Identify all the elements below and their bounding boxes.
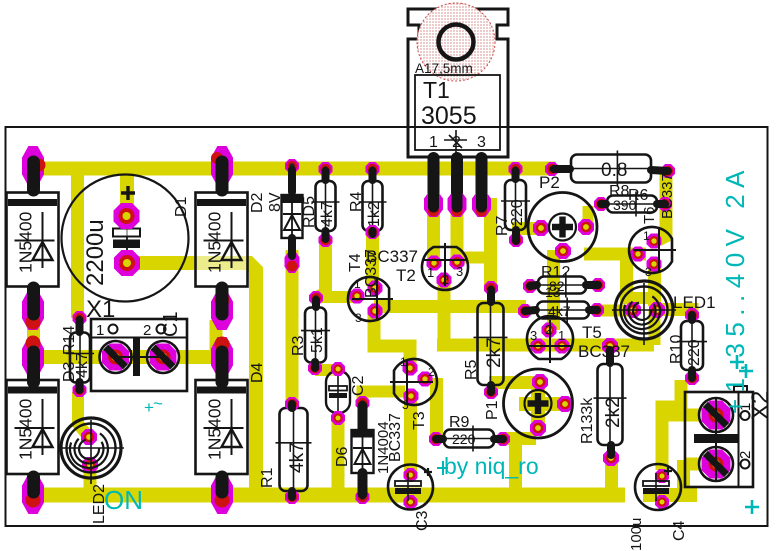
wire T4 collector to R11 bbox=[374, 300, 526, 313]
pads P2 bbox=[533, 220, 549, 236]
pads R5 bbox=[484, 281, 498, 295]
svg-text:1N5400: 1N5400 bbox=[205, 398, 225, 460]
resistor R5 body bbox=[478, 303, 504, 385]
wire T1 leg1 to T2 bbox=[427, 210, 440, 260]
svg-text:X2: X2 bbox=[747, 391, 774, 420]
pads C3 bbox=[404, 468, 418, 482]
resistor R12 body bbox=[538, 277, 586, 294]
wire R10 to C4 bbox=[662, 380, 681, 470]
X1 screw 1 bbox=[100, 341, 132, 373]
wire LED2 to bottom rail bbox=[84, 465, 97, 496]
svg-text:T6: T6 bbox=[641, 206, 658, 224]
svg-text:R133k: R133k bbox=[579, 397, 596, 444]
wire P1 wiper horizontal bbox=[519, 397, 563, 411]
svg-text:2: 2 bbox=[545, 322, 552, 337]
svg-text:13: 13 bbox=[545, 284, 561, 300]
pads D6 bbox=[356, 396, 370, 410]
wire T1 leg3 to R5 bbox=[481, 205, 491, 289]
transistor T3 BC337 bbox=[394, 359, 437, 405]
svg-text:2: 2 bbox=[442, 272, 449, 287]
svg-text:C3: C3 bbox=[414, 510, 431, 531]
svg-text:220: 220 bbox=[686, 339, 703, 366]
svg-text:1N5400: 1N5400 bbox=[16, 211, 36, 273]
svg-text:X1: X1 bbox=[86, 296, 115, 323]
pads T1 legs bbox=[424, 191, 443, 217]
diode D3 1N5400 body bbox=[7, 380, 59, 474]
wire top rail from D1 to R8 bbox=[27, 162, 556, 176]
wire T3 to R9 bbox=[430, 378, 443, 438]
wire R5 to P1 top bbox=[489, 376, 541, 389]
T1 mounting hole circle bbox=[417, 3, 495, 81]
svg-text:T3: T3 bbox=[411, 411, 428, 430]
capacitor C1 polarity symbol bbox=[126, 226, 128, 253]
pads zener DZ bbox=[285, 159, 299, 173]
wire LED1 stub bbox=[649, 309, 661, 345]
svg-text:1N5400: 1N5400 bbox=[16, 398, 36, 460]
diode D1 1N5400 body bbox=[7, 193, 59, 287]
terminal block X2 bbox=[685, 392, 753, 487]
svg-text:by niq_ro: by niq_ro bbox=[444, 453, 539, 479]
potentiometer P2 bbox=[528, 193, 597, 262]
pad D4 top bbox=[211, 337, 233, 377]
svg-text:1k2: 1k2 bbox=[366, 201, 383, 227]
capacitor C1 plus mark bbox=[121, 186, 135, 200]
wire mid rail T2-T5-R13 bbox=[437, 339, 654, 352]
resistor R14 body bbox=[70, 333, 90, 383]
svg-text:BC337: BC337 bbox=[387, 413, 404, 462]
pads R11 bbox=[518, 304, 532, 318]
wire R13 to rail bbox=[605, 458, 618, 492]
wire P2 wiper down to T5 bbox=[547, 250, 560, 330]
pad D1 bottom bbox=[22, 290, 44, 330]
pads R14 bbox=[73, 311, 87, 325]
pads T2 bbox=[427, 256, 442, 271]
svg-text:R12: R12 bbox=[541, 264, 570, 281]
pads T4 bbox=[350, 289, 365, 304]
pads R3 bbox=[309, 291, 323, 305]
pad C1 plus bbox=[114, 203, 140, 229]
resistor R11 body bbox=[537, 302, 589, 319]
pads R12 bbox=[523, 279, 537, 293]
pads C4 bbox=[655, 469, 669, 483]
pads RD5 bbox=[319, 162, 333, 176]
wire P2 to R6 bbox=[583, 206, 594, 228]
svg-text:BC337: BC337 bbox=[363, 249, 380, 298]
pads LED2 bbox=[81, 429, 97, 445]
svg-text:1: 1 bbox=[643, 229, 650, 243]
svg-text:C2: C2 bbox=[350, 375, 367, 396]
wire T1 leg2 to T2 bbox=[451, 210, 464, 259]
transistor T1 3055 package bbox=[408, 9, 508, 157]
resistor R6 body bbox=[607, 196, 657, 213]
pads R9 bbox=[429, 432, 443, 446]
pads R7 bbox=[509, 162, 523, 176]
svg-text:1: 1 bbox=[96, 322, 104, 339]
svg-text:3: 3 bbox=[645, 265, 652, 279]
svg-text:1: 1 bbox=[427, 265, 434, 280]
wire LED1 to R10 bbox=[651, 310, 692, 319]
svg-text:C1: C1 bbox=[160, 311, 182, 337]
pads R6 bbox=[594, 197, 608, 211]
svg-text:1: 1 bbox=[400, 355, 407, 369]
wire C2 to rail bbox=[332, 420, 345, 492]
resistor R1 body bbox=[280, 408, 308, 491]
wire X1 feed bbox=[33, 350, 216, 364]
svg-text:3055: 3055 bbox=[421, 102, 477, 130]
svg-text:1: 1 bbox=[354, 277, 361, 291]
pads R1 bbox=[285, 397, 299, 411]
svg-text:R5: R5 bbox=[463, 359, 480, 380]
pads C2 bbox=[331, 362, 345, 376]
cyan plus marks right bbox=[730, 355, 753, 378]
resistor R9 body bbox=[444, 430, 494, 448]
T1 inner rect bbox=[415, 75, 500, 150]
pad D3 top bbox=[22, 337, 44, 377]
svg-text:3: 3 bbox=[402, 398, 409, 412]
svg-text:3: 3 bbox=[530, 328, 537, 343]
svg-text:2k2: 2k2 bbox=[603, 397, 624, 428]
wire zener to R1 bbox=[286, 250, 299, 404]
svg-text:4k7: 4k7 bbox=[319, 201, 336, 227]
svg-text:D4: D4 bbox=[249, 362, 266, 383]
resistor R10 body bbox=[681, 321, 703, 370]
wire X2 pin2 rail segment bbox=[643, 488, 697, 502]
wire T4 emitter to T3 bbox=[374, 313, 410, 364]
pads R8 bbox=[545, 162, 559, 176]
X2 screw 1 bbox=[699, 398, 733, 432]
wire T2 pin2 down bbox=[438, 282, 451, 345]
terminal block X1 bbox=[91, 319, 187, 391]
wire T6 branch down bbox=[620, 250, 633, 298]
pads R10 bbox=[685, 308, 699, 322]
wire bottom ground rail bbox=[22, 488, 625, 503]
wire left column D1-D3 link bbox=[27, 298, 40, 354]
svg-text:1: 1 bbox=[558, 328, 565, 343]
svg-text:5k1: 5k1 bbox=[309, 327, 326, 353]
svg-text:2k7: 2k7 bbox=[484, 337, 505, 368]
wire X1 to D2 column bbox=[210, 320, 223, 359]
svg-text:BC337: BC337 bbox=[659, 173, 676, 219]
transistor T6 BC337 bbox=[629, 227, 672, 273]
pads LED1 bbox=[625, 302, 641, 318]
wire R3 to C2 bbox=[315, 364, 338, 376]
resistor R13 body bbox=[598, 364, 623, 445]
pad D1 top bbox=[22, 146, 44, 186]
svg-text:1N5400: 1N5400 bbox=[205, 211, 225, 273]
svg-text:D1: D1 bbox=[173, 196, 190, 217]
svg-text:2: 2 bbox=[737, 451, 754, 459]
wire RD5 to R3 bbox=[318, 237, 326, 297]
wire C1 minus to right column bbox=[121, 263, 256, 495]
pad D2 top bbox=[211, 146, 233, 186]
svg-text:T2: T2 bbox=[396, 266, 416, 285]
transistor T2 BC337 bbox=[422, 247, 468, 290]
wire R3 to T4 base bbox=[313, 291, 355, 303]
svg-text:0.8: 0.8 bbox=[601, 160, 627, 181]
capacitor C4 bbox=[635, 464, 681, 510]
pads T3 bbox=[403, 361, 418, 376]
svg-text:P2: P2 bbox=[539, 173, 560, 192]
svg-text:R10: R10 bbox=[668, 335, 685, 364]
T1 legs bbox=[428, 158, 440, 208]
diode D2 1N5400 body bbox=[196, 193, 248, 287]
diode D6 1N4004 body bbox=[352, 430, 374, 473]
svg-text:D2: D2 bbox=[249, 192, 266, 213]
svg-text:D6: D6 bbox=[334, 446, 351, 467]
diode D4 1N5400 body bbox=[196, 380, 248, 474]
zener diode DZ body bbox=[282, 195, 303, 238]
svg-text:T1: T1 bbox=[423, 77, 450, 103]
resistor R4 body bbox=[363, 181, 383, 231]
svg-text:2: 2 bbox=[143, 322, 151, 339]
svg-text:T5: T5 bbox=[582, 323, 602, 342]
LED1 bbox=[615, 281, 673, 339]
resistor RD5 body bbox=[316, 181, 336, 231]
svg-text:LED1: LED1 bbox=[673, 293, 716, 312]
wire R4 to T4 bbox=[366, 235, 379, 286]
wire X2 screw1 spur bbox=[662, 409, 712, 422]
capacitor C3 bbox=[388, 465, 433, 510]
wire R14 to LED2 bbox=[78, 392, 88, 436]
X1 screw 2 bbox=[147, 341, 179, 373]
potentiometer P1 bbox=[504, 369, 573, 438]
LED2 bbox=[61, 418, 121, 478]
svg-text:3: 3 bbox=[456, 264, 463, 279]
svg-text:R9: R9 bbox=[449, 414, 470, 431]
pads P1 bbox=[532, 374, 548, 390]
svg-text:2: 2 bbox=[428, 365, 435, 379]
transistor T5 BC337 bbox=[527, 316, 573, 359]
pads R4 bbox=[366, 162, 380, 176]
X1 divider bbox=[133, 337, 140, 376]
capacitor C1 2200u outline bbox=[62, 175, 189, 302]
wire R9 to P1 bbox=[504, 432, 536, 445]
wire R8 to R6 to T6 bbox=[658, 172, 666, 240]
svg-text:220: 220 bbox=[452, 431, 476, 447]
wire R14 feed from top rail bbox=[71, 168, 84, 318]
wire T6 emitter down bbox=[648, 262, 661, 306]
svg-text:R3: R3 bbox=[290, 335, 307, 356]
svg-text:R4: R4 bbox=[348, 191, 365, 212]
svg-text:RD5: RD5 bbox=[301, 196, 318, 228]
svg-text:~: ~ bbox=[153, 394, 163, 413]
svg-text:A17,5mm: A17,5mm bbox=[415, 61, 473, 76]
pads T6 bbox=[647, 234, 662, 249]
wire X2 pin2 drop bbox=[677, 460, 690, 495]
pad D2 bottom bbox=[211, 290, 233, 330]
svg-text:R6: R6 bbox=[628, 187, 649, 204]
svg-text:4k7: 4k7 bbox=[287, 442, 308, 473]
svg-text:2200u: 2200u bbox=[82, 219, 109, 286]
wire D6 link bbox=[363, 392, 406, 402]
svg-text:1: 1 bbox=[429, 134, 438, 151]
svg-text:R7: R7 bbox=[494, 215, 511, 236]
wire branch under LED1 bbox=[620, 292, 658, 304]
wire R11 to branch bbox=[598, 305, 631, 317]
wire P2 to T6 bbox=[584, 248, 646, 261]
svg-text:C4: C4 bbox=[671, 520, 688, 541]
svg-text:BC337: BC337 bbox=[578, 342, 630, 361]
transistor T4 BC337 bbox=[348, 277, 389, 321]
svg-text:220: 220 bbox=[509, 199, 526, 226]
svg-text:3: 3 bbox=[477, 134, 486, 151]
svg-text:3: 3 bbox=[355, 311, 362, 325]
wire C1 plus feed bbox=[120, 168, 134, 216]
wire P1 wiper vertical bbox=[531, 385, 545, 428]
wire T2 pin3 spur bbox=[462, 252, 487, 264]
resistor R8 body bbox=[571, 155, 651, 183]
svg-text:R14: R14 bbox=[61, 326, 78, 355]
pad D3 bottom bbox=[22, 474, 44, 514]
wire R7 to P2 bbox=[512, 222, 539, 235]
wire P1 drop to rail bbox=[509, 438, 522, 495]
X2 divider bbox=[694, 434, 738, 443]
wire T3 to C3 bbox=[404, 398, 417, 474]
svg-text:T4: T4 bbox=[347, 253, 364, 272]
svg-text:100u: 100u bbox=[628, 518, 645, 551]
svg-text:R1: R1 bbox=[259, 467, 276, 488]
wire X2 screw2 spur bbox=[684, 458, 714, 471]
X2 screw 2 bbox=[699, 447, 733, 481]
svg-text:P1: P1 bbox=[484, 400, 501, 420]
resistor R7 body bbox=[505, 180, 526, 230]
pad C1 minus bbox=[114, 250, 140, 276]
svg-text:ON: ON bbox=[104, 485, 143, 515]
board outline bbox=[6, 127, 768, 526]
resistor R3 body bbox=[305, 308, 326, 363]
pad D4 bottom bbox=[211, 474, 233, 514]
pads T5 bbox=[542, 323, 557, 338]
svg-text:8V: 8V bbox=[267, 192, 284, 212]
svg-text:D3: D3 bbox=[61, 361, 78, 382]
capacitor C2 body bbox=[326, 371, 350, 413]
pads R13 bbox=[602, 338, 618, 354]
